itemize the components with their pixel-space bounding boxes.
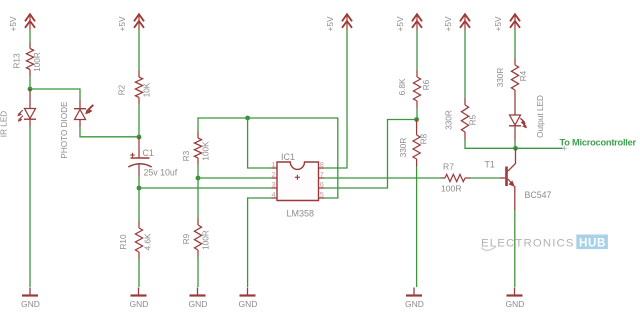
node E junction bbox=[196, 176, 201, 181]
svg-text:R4: R4 bbox=[519, 70, 528, 81]
ground (R10) bbox=[130, 288, 149, 310]
wire node G to microcontroller (output net) bbox=[516, 147, 565, 149]
wire +5V to R4 bbox=[514, 30, 516, 58]
svg-text:+5V: +5V bbox=[325, 16, 335, 31]
svg-text:Output LED: Output LED bbox=[536, 95, 545, 138]
LED Output LED bbox=[509, 95, 545, 141]
wire +5V to R6 bbox=[416, 30, 418, 70]
svg-text:GND: GND bbox=[506, 299, 525, 309]
node C junction bbox=[137, 186, 142, 191]
svg-text:R5: R5 bbox=[469, 114, 478, 125]
svg-text:5: 5 bbox=[320, 190, 324, 199]
LED IR LED bbox=[0, 89, 36, 137]
svg-text:R7: R7 bbox=[443, 162, 454, 172]
resistor R10 4.6K bbox=[119, 221, 153, 259]
wire R8 to GND bbox=[416, 167, 418, 288]
wire photodiode cathode to node B bbox=[80, 127, 139, 137]
wire node D to IC pin 1 bbox=[248, 118, 272, 168]
wire top feedback net: R3 top to IC pin 5 bbox=[198, 118, 338, 198]
svg-text:R3: R3 bbox=[182, 150, 191, 161]
op-amp IC1 LM358 bbox=[272, 152, 325, 219]
wire IR LED cathode to GND bbox=[29, 127, 31, 288]
svg-text:IC1: IC1 bbox=[281, 152, 295, 162]
svg-text:7: 7 bbox=[320, 170, 324, 179]
open wire end tick bbox=[562, 146, 567, 151]
svg-text:10K: 10K bbox=[143, 82, 152, 97]
wire node C to R10 bbox=[138, 188, 140, 221]
svg-text:+5V: +5V bbox=[395, 16, 405, 31]
+5V supply (R4 column) bbox=[493, 14, 520, 31]
capacitor C1 25v 10uf bbox=[128, 137, 178, 178]
svg-text:+5V: +5V bbox=[443, 16, 453, 31]
wire IC pin 7 to R7 bbox=[324, 177, 441, 179]
svg-text:HUB: HUB bbox=[579, 236, 606, 249]
svg-text:PHOTO DIODE: PHOTO DIODE bbox=[60, 101, 69, 159]
ground (IR LED) bbox=[21, 288, 40, 310]
label To Microcontroller bbox=[560, 137, 637, 147]
svg-text:330R: 330R bbox=[399, 138, 408, 158]
svg-text:To Microcontroller: To Microcontroller bbox=[560, 137, 637, 147]
svg-text:25v 10uf: 25v 10uf bbox=[144, 168, 178, 178]
node F junction (R6/R8) bbox=[414, 117, 419, 122]
svg-text:6: 6 bbox=[320, 180, 324, 189]
resistor R8 330R bbox=[399, 120, 429, 167]
resistor R7 100R bbox=[441, 162, 471, 194]
svg-text:3: 3 bbox=[272, 180, 276, 189]
svg-text:R13: R13 bbox=[13, 53, 22, 68]
svg-text:100R: 100R bbox=[441, 184, 462, 194]
+5V supply (R2 column) bbox=[117, 14, 144, 31]
svg-text:GND: GND bbox=[405, 299, 424, 309]
ground (IC pin 4) bbox=[239, 288, 258, 310]
svg-text:4.6K: 4.6K bbox=[144, 233, 153, 250]
svg-text:+5V: +5V bbox=[117, 16, 127, 31]
svg-text:330R: 330R bbox=[496, 68, 505, 88]
wire +5V to R13 bbox=[29, 30, 31, 42]
svg-text:1: 1 bbox=[272, 160, 276, 169]
ground (R8) bbox=[405, 288, 424, 310]
+5V supply (R13 column) bbox=[8, 14, 35, 31]
transistor T1 BC547 bbox=[485, 148, 552, 210]
photodiode PHOTO DIODE bbox=[60, 100, 93, 159]
resistor R5 330R bbox=[445, 98, 478, 140]
wire R10 to GND bbox=[138, 259, 140, 287]
wire R9 to GND bbox=[197, 257, 199, 287]
svg-text:330R: 330R bbox=[445, 110, 454, 130]
svg-text:R8: R8 bbox=[420, 133, 429, 144]
wire IC pin 6 to node F bbox=[324, 120, 417, 189]
svg-text:4: 4 bbox=[272, 190, 276, 199]
watermark ELECTRONICS HUB bbox=[481, 235, 608, 251]
svg-text:100R: 100R bbox=[202, 230, 211, 250]
svg-text:R10: R10 bbox=[119, 234, 128, 249]
svg-text:GND: GND bbox=[189, 299, 208, 309]
resistor R6 6.8K bbox=[398, 70, 431, 108]
svg-text:C1: C1 bbox=[143, 148, 154, 158]
resistor R3 100K bbox=[182, 131, 211, 165]
svg-text:T1: T1 bbox=[485, 160, 495, 170]
wire node A to photodiode anode bbox=[30, 89, 80, 100]
wire R3 to node E bbox=[197, 165, 199, 178]
ground (T1 emitter) bbox=[506, 288, 525, 310]
svg-text:GND: GND bbox=[239, 299, 258, 309]
wire node C to IC pin 3 bbox=[139, 187, 272, 189]
svg-text:GND: GND bbox=[21, 299, 40, 309]
svg-text:R6: R6 bbox=[422, 79, 431, 90]
svg-text:2: 2 bbox=[272, 170, 276, 179]
svg-text:IR LED: IR LED bbox=[0, 111, 9, 137]
node D junction (feedback tap to pin 1) bbox=[245, 116, 250, 121]
svg-text:100R: 100R bbox=[33, 52, 42, 72]
svg-text:GND: GND bbox=[130, 299, 149, 309]
+5V supply (IC pin 8) bbox=[325, 14, 352, 31]
ground (R9) bbox=[189, 288, 208, 310]
resistor R13 100R bbox=[13, 42, 43, 77]
+5V supply (R6 column) bbox=[395, 14, 422, 31]
wire T1 emitter to GND bbox=[514, 210, 516, 287]
wire node E to IC pin 2 bbox=[198, 177, 272, 179]
wire C1 to node C bbox=[138, 177, 140, 188]
node G junction (T1 collector) bbox=[513, 146, 518, 151]
resistor R4 330R bbox=[496, 58, 528, 97]
+5V supply (R5 column) bbox=[443, 14, 470, 31]
svg-text:100K: 100K bbox=[202, 141, 211, 161]
IC1 pin numbers 1,2,3,4 (left) and 8,7,6,5 (right) bbox=[272, 160, 324, 199]
svg-text:R9: R9 bbox=[182, 233, 191, 244]
wire IC pin 4 to GND bbox=[248, 198, 272, 287]
wire R5 to node G bbox=[465, 140, 516, 148]
wire R13 to node A bbox=[29, 77, 31, 90]
node A junction bbox=[28, 87, 33, 92]
resistor R9 100R bbox=[182, 218, 211, 257]
wire +5V to R2 bbox=[138, 30, 140, 70]
svg-text:BC547: BC547 bbox=[525, 190, 552, 200]
wire R2 to node B bbox=[138, 105, 140, 137]
wire Output LED to node G bbox=[514, 141, 516, 148]
resistor R2 10K bbox=[118, 70, 152, 105]
wire +5V to IC pin 8 bbox=[324, 30, 347, 168]
node B junction bbox=[137, 135, 142, 140]
wire +5V to R5 bbox=[464, 30, 466, 98]
wire R6 to node F bbox=[416, 108, 418, 120]
wire node E to R9 bbox=[197, 178, 199, 218]
svg-text:R2: R2 bbox=[118, 84, 127, 95]
svg-text:LM358: LM358 bbox=[287, 209, 315, 219]
svg-text:8: 8 bbox=[320, 160, 324, 169]
svg-text:6.8K: 6.8K bbox=[398, 78, 407, 95]
wire R7 to T1 base bbox=[471, 177, 501, 179]
svg-text:+5V: +5V bbox=[8, 16, 18, 31]
svg-text:+5V: +5V bbox=[493, 16, 503, 31]
